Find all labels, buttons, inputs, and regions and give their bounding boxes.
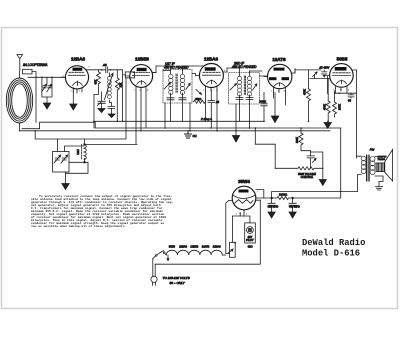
svg-text:+30 MFD: +30 MFD (289, 204, 300, 208)
junction dots (34, 121, 329, 132)
tube V3 12BA6 label (204, 57, 219, 62)
ground (osc box) (65, 172, 67, 184)
alignment text block (31, 194, 173, 228)
svg-text:150K: 150K (338, 104, 342, 110)
ground below R7 right (322, 168, 324, 179)
pin numbers V4 (271, 90, 286, 93)
ground (antenna trimmer) (43, 103, 50, 109)
cap C9 (307, 151, 323, 169)
ground triangle below bus (x236) (235, 131, 237, 136)
tube V5 50B5 label (337, 57, 348, 62)
pin numbers V1 (63, 67, 91, 93)
volume pot R6 (295, 128, 311, 151)
audio coupling resistor R7 (275, 167, 323, 179)
svg-text:12BE6: 12BE6 (190, 245, 198, 249)
oscillator coil L3 (77, 139, 86, 162)
svg-text:2 Meg A: 2 Meg A (200, 117, 212, 121)
wire: antenna node to grid (28, 77, 66, 79)
tube V1 12BA6 (61, 66, 89, 93)
filament string labels (169, 245, 221, 249)
coupling cap C6 .05 to V5 (295, 66, 330, 102)
antenna trimmer C1 box (42, 77, 52, 103)
svg-text:.0002: .0002 (259, 100, 266, 104)
capacitor C5 .0002 + label (259, 93, 267, 111)
IF transformer T2 label (232, 62, 257, 70)
svg-text:47K: 47K (94, 79, 98, 84)
svg-text:CH: CH (193, 134, 197, 138)
power label (163, 276, 191, 285)
svg-text:12BA6: 12BA6 (71, 57, 86, 62)
grid return box (V2) (125, 72, 134, 78)
tube V4 12AT6 (264, 64, 295, 92)
svg-text:low as possible when making al: low as possible when making all of these… (31, 224, 127, 228)
filament heater string (166, 250, 226, 255)
ballast box on filament line (230, 242, 237, 257)
IF transformer T1 (163, 70, 192, 104)
tube V4 12AT6 label (272, 57, 286, 62)
tube V2 12BE6 label (135, 57, 149, 62)
wires osc section (35, 131, 126, 139)
svg-text:.05: .05 (216, 100, 220, 104)
tube V3 12BA6 (196, 64, 228, 92)
antenna (17, 55, 23, 70)
wire: 35W4 heater pin down to filament string (226, 201, 233, 254)
electrolytic C11 (289, 198, 300, 212)
resistor R2 22K (115, 70, 122, 122)
wire T2 to V4 (250, 71, 268, 76)
pin numbers V5 (333, 90, 350, 92)
chassis ground (striped) on bus (185, 131, 197, 138)
svg-text:12AT6: 12AT6 (272, 57, 286, 62)
tube V6 35W4 (229, 186, 260, 216)
tube V5 50B5 (326, 64, 357, 94)
svg-text:DeWald Radio: DeWald Radio (302, 238, 365, 248)
IF transformer T2 (227, 68, 259, 104)
electrolytic C10 (268, 198, 279, 212)
svg-text:.05: .05 (103, 63, 108, 67)
output transformer T3 (357, 148, 385, 192)
junction dots on B+ line (271, 197, 273, 199)
pin numbers V2 (134, 89, 150, 92)
wire: ballast to 35W4 cathode (232, 216, 244, 242)
svg-text:50B5: 50B5 (337, 57, 348, 62)
svg-text:470K: 470K (303, 89, 307, 95)
cathode cap C8 of V5 (335, 92, 357, 102)
speaker SP1 (376, 150, 393, 182)
capacitor C4 + ground (108, 106, 115, 114)
coil L2 with trimmer arrow (105, 73, 114, 106)
svg-text:Model D-616: Model D-616 (302, 249, 360, 259)
vertical feeders to buses (35, 77, 37, 122)
B+ line with filter (256, 192, 341, 200)
tube V1 12BA6 label (71, 57, 86, 62)
DeWald Radio title (302, 238, 365, 259)
svg-text:470K: 470K (323, 104, 327, 110)
svg-text:+30 MFD: +30 MFD (268, 204, 279, 208)
svg-text:3A LOOPTENNA: 3A LOOPTENNA (23, 63, 47, 67)
B+ feed wires (255, 128, 275, 168)
wire V2 plate to T1 (153, 66, 171, 73)
tube V2 12BE6 (126, 65, 156, 91)
resistor R3 470K (rotated label) (303, 70, 311, 121)
cathode resistor + cap below V3 (194, 90, 220, 129)
svg-text:12BA6: 12BA6 (213, 245, 221, 249)
resistor R1 47K (V1 plate load) (94, 70, 101, 128)
svg-text:40Ω: 40Ω (248, 245, 253, 249)
capacitor C3 + ground (98, 92, 106, 109)
bus B- mid (22, 122, 341, 129)
svg-text:22K: 22K (119, 82, 123, 87)
svg-text:TRANS: TRANS (378, 158, 386, 161)
svg-text:1000Ω: 1000Ω (279, 193, 287, 197)
svg-text:12BA6: 12BA6 (204, 57, 219, 62)
ground below speaker (376, 182, 383, 191)
bus label 2 Meg (200, 117, 212, 121)
capacitor C2 .05 (86, 63, 125, 121)
switch SW (153, 251, 170, 262)
pin numbers V3 (203, 70, 226, 92)
svg-text:12AT6: 12AT6 (202, 245, 210, 249)
svg-text:50B5: 50B5 (169, 245, 176, 249)
tube V6 35W4 label (238, 179, 250, 184)
AC plug (151, 259, 157, 286)
svg-text:35W4: 35W4 (238, 179, 250, 184)
svg-text:.05 400V: .05 400V (319, 66, 330, 70)
B+ top line (272, 128, 358, 198)
svg-text:12BE6: 12BE6 (135, 57, 149, 62)
wire T1 to V3 grid (183, 66, 204, 76)
loop antenna L1 (6, 70, 32, 132)
svg-text:50 ~ ONLY: 50 ~ ONLY (170, 281, 186, 285)
resistor R4 + R5 (V5 grid/screen) (323, 93, 342, 121)
IF transformer T1 label (164, 62, 189, 70)
svg-text:PM: PM (370, 148, 375, 152)
wave trap box (23, 69, 37, 77)
ground below V4 cathode (274, 93, 276, 117)
svg-text:TO 105-125 VOLTS: TO 105-125 VOLTS (163, 276, 191, 280)
bus AVC (2 Meg) (94, 120, 264, 122)
loop antenna label (23, 63, 47, 67)
pin numbers V6 (236, 192, 259, 216)
svg-text:PILOT: PILOT (246, 238, 254, 242)
svg-text:500K: 500K (295, 137, 299, 143)
svg-text:12BA6: 12BA6 (179, 245, 187, 249)
svg-text:OSC: OSC (77, 149, 80, 154)
ground below V1 (72, 91, 74, 105)
wires 35W4 to B+ line (239, 190, 263, 223)
ground triangle below bus (x327.7 top right) (327, 121, 329, 122)
wire: plug to B- return (155, 200, 260, 264)
oscillator trimmer box (53, 139, 85, 172)
pilot lamp P1 (245, 223, 256, 249)
bus ground (20, 130, 331, 132)
svg-text:CONTROL: CONTROL (301, 175, 314, 179)
